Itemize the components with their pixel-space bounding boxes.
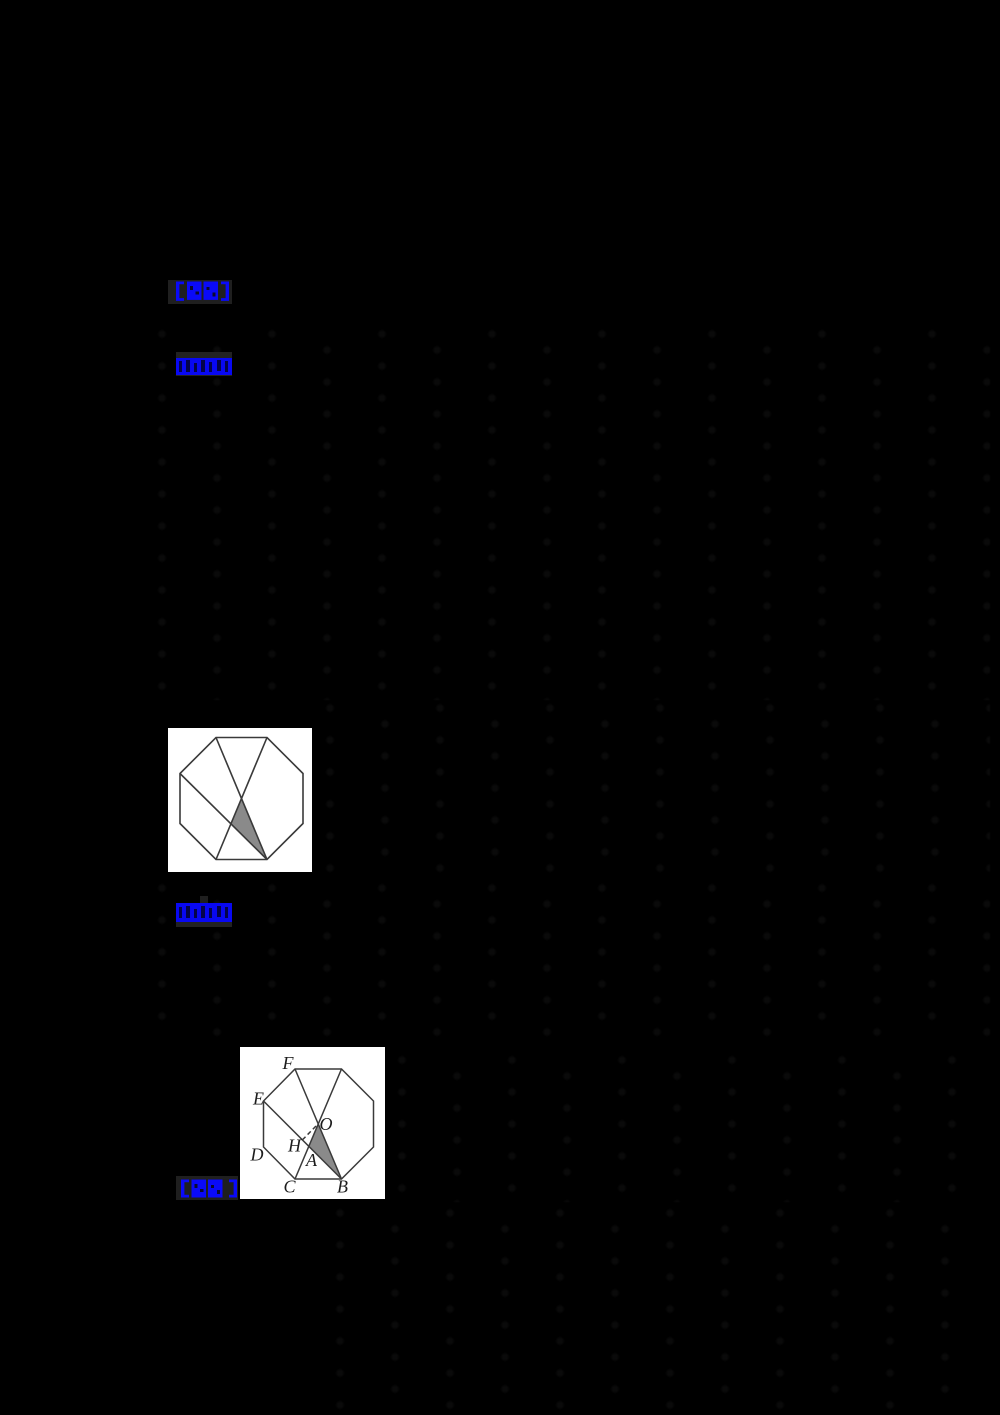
figure 1: octagon diagram [168, 728, 312, 872]
shaded triangle [231, 799, 267, 860]
label 2 detail tag (blue highlighted) [176, 352, 232, 376]
svg-text:F: F [281, 1053, 294, 1073]
octagon [180, 738, 303, 860]
label 4 conclusion tag [176, 1176, 238, 1200]
diagonal E to B [263, 1101, 341, 1179]
shaded triangle O-A-B [308, 1124, 341, 1179]
label 3 detail tag (blue highlighted) [176, 896, 232, 927]
svg-text:C: C [283, 1177, 296, 1197]
svg-text:B: B [337, 1177, 348, 1197]
label 1 analysis tag [168, 280, 232, 304]
diagonal top-right to C [295, 1069, 342, 1179]
svg-text:A: A [305, 1150, 318, 1170]
figure 2: labeled octagon diagram [240, 1047, 385, 1199]
vertex labels [249, 1053, 348, 1197]
faint watermark dot field [152, 326, 990, 700]
svg-text:H: H [287, 1136, 302, 1156]
dashed O to H [302, 1126, 316, 1140]
diagonal top-right to bottom-left [216, 738, 267, 860]
svg-text:E: E [252, 1089, 264, 1109]
diagonal top-left to bottom-right [216, 738, 267, 860]
diagonal left-upper to bottom-right [180, 774, 267, 860]
svg-text:O: O [319, 1114, 332, 1134]
octagon [263, 1069, 373, 1179]
svg-text:D: D [249, 1145, 263, 1165]
diagonal F to B [295, 1069, 342, 1179]
